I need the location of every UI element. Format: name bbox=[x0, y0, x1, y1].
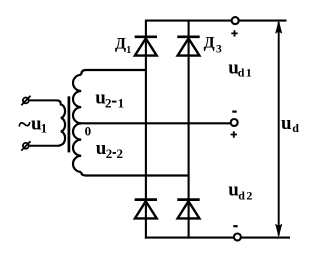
svg-text:1: 1 bbox=[118, 95, 125, 110]
winding secondary u2-2 bbox=[73, 123, 81, 172]
svg-text:d: d bbox=[238, 188, 245, 202]
terminal output middle bbox=[231, 119, 238, 126]
svg-text:d: d bbox=[292, 121, 299, 135]
wire secondary top to bridge bbox=[81, 70, 147, 75]
svg-text:u: u bbox=[281, 113, 292, 134]
svg-text:2: 2 bbox=[117, 146, 124, 161]
svg-text:0: 0 bbox=[85, 123, 92, 138]
minus sign middle bbox=[232, 110, 236, 112]
svg-text:~: ~ bbox=[18, 112, 31, 138]
wire center tap to middle terminal bbox=[81, 122, 231, 124]
plus sign middle bbox=[231, 131, 237, 137]
terminal output plus top bbox=[232, 17, 239, 24]
svg-text:3: 3 bbox=[216, 44, 222, 56]
transformer core bbox=[68, 96, 71, 152]
diode D4 bottom-right bbox=[177, 200, 199, 219]
label u2-1 bbox=[95, 87, 124, 110]
diode D2 bottom-left bbox=[135, 200, 157, 219]
winding secondary u2-1 bbox=[73, 75, 81, 124]
winding primary u1 bbox=[57, 100, 65, 145]
terminal input bottom bbox=[21, 141, 30, 150]
terminal output minus bottom bbox=[234, 234, 241, 241]
wire secondary bottom to bridge bbox=[81, 172, 189, 176]
svg-text:1: 1 bbox=[126, 45, 131, 56]
terminal input top bbox=[21, 96, 30, 105]
diode D1 bbox=[135, 37, 157, 56]
wire primary top bbox=[29, 99, 57, 101]
label ~u1 bbox=[18, 112, 47, 138]
svg-text:2: 2 bbox=[106, 146, 113, 161]
wire ud arrow line bbox=[278, 22, 280, 236]
label ud1 bbox=[228, 57, 252, 79]
svg-text:d: d bbox=[238, 66, 245, 80]
diode D3 bbox=[177, 37, 199, 56]
svg-text:2: 2 bbox=[246, 188, 252, 202]
label ud2 bbox=[228, 180, 252, 203]
wire primary bottom bbox=[29, 145, 57, 147]
svg-text:1: 1 bbox=[246, 66, 252, 80]
arrowhead top bbox=[275, 20, 282, 34]
label D1 bbox=[115, 36, 131, 57]
wire right bridge column bbox=[188, 20, 190, 239]
svg-text:Д: Д bbox=[115, 36, 126, 53]
wire left bridge column bbox=[145, 20, 147, 239]
wire top rail (+ output) bbox=[146, 20, 287, 22]
label D3 bbox=[204, 35, 222, 56]
svg-text:1: 1 bbox=[41, 121, 48, 136]
arrowhead bottom bbox=[275, 224, 282, 238]
label u2-2 bbox=[96, 138, 123, 161]
wire bottom rail (- output) bbox=[145, 237, 290, 239]
svg-text:Д: Д bbox=[204, 35, 215, 52]
label ud bbox=[281, 113, 299, 135]
plus sign top bbox=[231, 30, 237, 36]
svg-text:2: 2 bbox=[105, 95, 112, 110]
minus sign bottom bbox=[233, 225, 237, 227]
